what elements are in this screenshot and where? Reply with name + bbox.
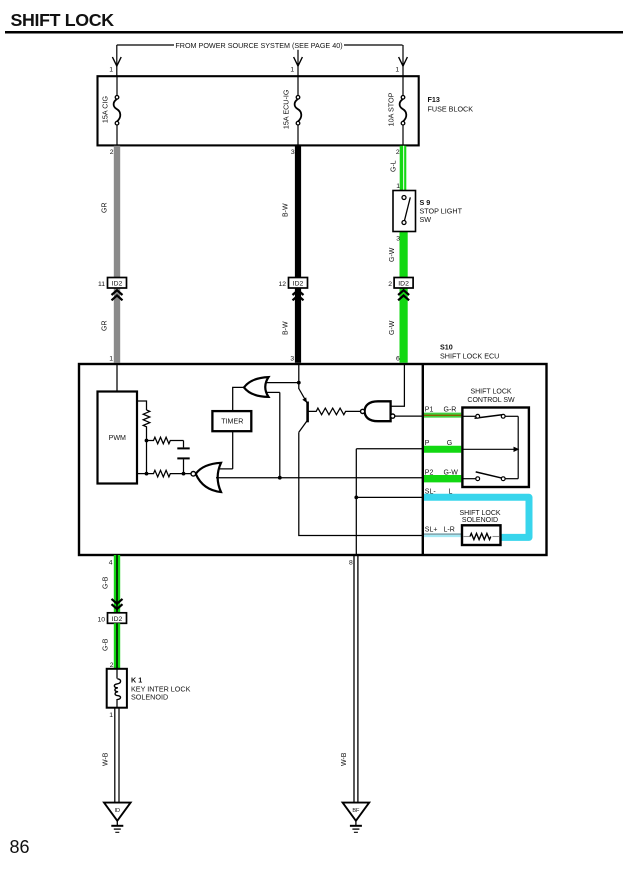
fuse F3 10A STOP [387, 77, 407, 145]
svg-text:10A STOP: 10A STOP [387, 92, 396, 126]
node: SL- junction [354, 496, 358, 500]
svg-text:SHIFT LOCK: SHIFT LOCK [470, 388, 511, 395]
wire W-B left double line [103, 708, 120, 803]
svg-text:G-R: G-R [444, 407, 457, 414]
timer box [212, 411, 251, 431]
fuse F2 15A ECU-IG [282, 77, 302, 145]
arrow into fuse 3 [399, 57, 408, 66]
svg-text:L: L [449, 488, 453, 495]
transistor Q1 [299, 389, 308, 433]
wire: P2 long line from NOR to divider [216, 477, 423, 479]
solenoid K1 KEY INTER LOCK SOLENOID [107, 669, 191, 708]
svg-text:G-B: G-B [103, 638, 110, 651]
svg-text:1: 1 [109, 356, 113, 363]
svg-text:L-R: L-R [444, 526, 455, 533]
wire SL- L cyan thick [424, 497, 529, 537]
svg-text:BF: BF [352, 808, 360, 814]
label P G [425, 440, 452, 447]
connector ID2 pin 2 [388, 278, 413, 301]
svg-text:B-W: B-W [283, 203, 290, 217]
svg-text:F13: F13 [428, 95, 440, 104]
svg-text:SL-: SL- [425, 488, 437, 495]
svg-text:P1: P1 [425, 407, 434, 414]
wire: middle feed drop to fuse 2 [297, 45, 299, 76]
label SHIFT LOCK SOLENOID [459, 510, 500, 524]
resistor R3 horizontal [147, 470, 192, 477]
svg-text:2: 2 [396, 149, 400, 156]
svg-text:SHIFT LOCK: SHIFT LOCK [11, 10, 115, 30]
wire: pin6 down to AND gate [391, 364, 405, 406]
svg-text:P2: P2 [425, 469, 434, 476]
svg-text:SL+: SL+ [425, 526, 438, 533]
svg-text:P: P [425, 440, 430, 447]
svg-text:15A ECU-IG: 15A ECU-IG [282, 89, 291, 129]
node: emitter junction [297, 381, 301, 385]
svg-text:GR: GR [102, 203, 109, 214]
wire: TIMER bottom to NOR input [232, 431, 234, 469]
ground BF [343, 803, 370, 833]
svg-text:3: 3 [396, 236, 400, 243]
wire: left feed drop to fuse 1 [116, 45, 118, 76]
svg-text:ID2: ID2 [112, 281, 123, 288]
wire: PWM to R1 [137, 401, 146, 410]
svg-text:B-W: B-W [283, 321, 290, 335]
svg-text:SHIFT LOCK: SHIFT LOCK [459, 510, 500, 517]
resistor R2 horizontal [147, 437, 184, 444]
svg-text:FROM POWER SOURCE SYSTEM (SEE: FROM POWER SOURCE SYSTEM (SEE PAGE 40) [175, 41, 342, 50]
node: capacitor to NOR output line [182, 472, 186, 476]
connector ID2 pin 11 [98, 278, 127, 301]
svg-text:SW: SW [420, 215, 432, 224]
svg-text:1: 1 [396, 183, 400, 190]
svg-text:G-W: G-W [444, 469, 459, 476]
label: FROM POWER SOURCE SYSTEM (SEE PAGE 40) [174, 40, 344, 50]
NOR gate (points left, bubble at tip) [191, 463, 233, 492]
arrow into fuse 1 [112, 57, 121, 66]
resistor R4 base [308, 408, 361, 415]
connector ID2 pin 12 [278, 278, 307, 301]
connector ID2 pin 10 [97, 599, 126, 623]
node: lower-left junction [145, 472, 149, 476]
wire W-B right double line [341, 556, 358, 803]
svg-text:3: 3 [291, 149, 295, 156]
svg-text:SOLENOID: SOLENOID [462, 517, 498, 524]
control SW common vertical [517, 416, 519, 478]
wire B-W black from fuse to ECU [283, 146, 299, 363]
svg-text:11: 11 [98, 281, 105, 288]
wire G-B green/black lower [103, 623, 118, 669]
title SHIFT LOCK [5, 10, 623, 34]
AND gate (mirrored, flat right) [361, 401, 395, 421]
wire: B-W pin3 internal down [298, 364, 300, 389]
svg-text:2: 2 [388, 281, 392, 288]
svg-text:15A CIG: 15A CIG [101, 96, 110, 124]
node: R1/R2 junction [145, 439, 149, 443]
svg-text:W-B: W-B [103, 752, 110, 766]
svg-text:G-L: G-L [391, 160, 398, 172]
svg-text:G-W: G-W [389, 320, 396, 335]
label F13 FUSE BLOCK [428, 95, 474, 114]
svg-text:6: 6 [396, 356, 400, 363]
svg-text:CONTROL SW: CONTROL SW [467, 397, 515, 404]
wire: vertical to pin 8 [355, 449, 357, 555]
svg-text:ID2: ID2 [112, 616, 123, 623]
fuse F1 15A CIG [101, 77, 121, 145]
svg-text:PWM: PWM [109, 434, 126, 442]
svg-text:2: 2 [110, 149, 114, 156]
label S10 SHIFT LOCK ECU [440, 343, 499, 361]
svg-text:TIMER: TIMER [221, 417, 243, 425]
ECU divider line [422, 364, 424, 555]
wire P G green [424, 446, 461, 453]
node: on P2 line [278, 476, 282, 480]
wire: SL- row internal [356, 496, 423, 498]
svg-text:K 1: K 1 [131, 676, 142, 685]
label P1 G-R [425, 407, 457, 414]
wire SL+ L-R light cyan [424, 534, 462, 535]
arrow into fuse 2 [294, 57, 303, 66]
svg-text:ID2: ID2 [293, 281, 304, 288]
svg-text:ID2: ID2 [398, 281, 409, 288]
wire: power feed horizontal from power source system [117, 45, 403, 76]
ECU S10 outer box [79, 364, 547, 555]
PWM box [98, 392, 138, 484]
wire G-W green from stop light switch to ECU [389, 231, 404, 363]
label SL+ L-R [425, 526, 455, 533]
wire: OR gate output to TIMER top [233, 387, 244, 411]
OR gate (points left) [244, 377, 299, 397]
wire: AND output to divider (P1) [395, 415, 423, 417]
svg-text:1: 1 [395, 67, 399, 74]
ground ID [104, 803, 131, 833]
svg-text:W-B: W-B [341, 752, 348, 766]
control SW top contact row P1 [462, 414, 518, 418]
svg-text:4: 4 [109, 560, 113, 567]
wire P1 G-R green/red [424, 413, 461, 418]
svg-text:G-B: G-B [103, 576, 110, 589]
svg-text:SOLENOID: SOLENOID [131, 693, 168, 702]
svg-text:86: 86 [10, 837, 30, 857]
fuse block F13 box [98, 76, 419, 145]
wire: P G row internal [356, 448, 423, 450]
label SL- L [425, 488, 453, 495]
wire: pin1 to PWM [116, 364, 118, 392]
svg-text:G-W: G-W [389, 247, 396, 262]
svg-text:8: 8 [349, 560, 353, 567]
label SHIFT LOCK CONTROL SW [467, 388, 515, 404]
control SW middle pole row P [462, 447, 519, 452]
switch S9 STOP LIGHT SW [393, 191, 463, 232]
wire: PWM lower row [137, 473, 146, 475]
wire G-B green/black upper [103, 555, 118, 613]
wire GR gray from fuse to connector ID2 [102, 146, 118, 363]
svg-text:G: G [447, 440, 452, 447]
svg-text:10: 10 [97, 616, 105, 623]
wire: junction down to lower row [146, 441, 148, 474]
svg-text:ID: ID [115, 808, 121, 814]
resistor R1 vertical [143, 410, 150, 441]
wire G-L green from fuse to stop light switch [391, 146, 404, 191]
wire: OR lower input down to P2 line [279, 392, 281, 477]
svg-text:1: 1 [290, 67, 294, 74]
capacitor C1 [177, 441, 189, 474]
wire P2 G-W green [424, 475, 461, 482]
svg-text:FUSE BLOCK: FUSE BLOCK [428, 105, 474, 114]
label P2 G-W [425, 469, 458, 476]
svg-text:3: 3 [290, 356, 294, 363]
wire: right feed drop to fuse 3 [402, 45, 404, 76]
wire: collector down to SL+ row [299, 432, 423, 535]
control SW bottom contact row P2 [462, 472, 518, 481]
shift lock solenoid box with resistor [462, 525, 501, 545]
shift lock control SW box [462, 408, 529, 488]
svg-text:1: 1 [109, 712, 113, 719]
svg-text:SHIFT LOCK ECU: SHIFT LOCK ECU [440, 352, 499, 361]
svg-text:S10: S10 [440, 343, 453, 352]
svg-text:1: 1 [109, 67, 113, 74]
svg-text:12: 12 [278, 281, 286, 288]
svg-text:GR: GR [102, 321, 109, 332]
